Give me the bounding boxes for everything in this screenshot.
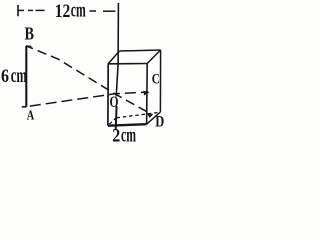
svg-text:cm: cm — [11, 65, 27, 87]
svg-text:6: 6 — [1, 66, 9, 87]
svg-text:D: D — [155, 113, 164, 130]
svg-text:O: O — [110, 94, 119, 111]
svg-text:B: B — [25, 24, 35, 44]
svg-text:cm: cm — [71, 0, 86, 21]
svg-text:A: A — [27, 107, 35, 122]
svg-text:cm: cm — [121, 124, 136, 146]
svg-text:C: C — [152, 71, 160, 87]
svg-text:2: 2 — [112, 126, 120, 146]
svg-text:12: 12 — [55, 1, 71, 22]
